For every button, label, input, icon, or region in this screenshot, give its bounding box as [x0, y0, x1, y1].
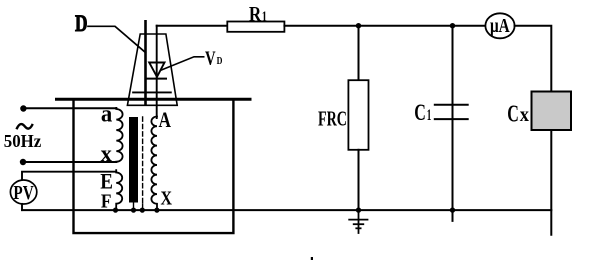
wire top to R1 [157, 25, 228, 27]
wire PV loop top [22, 172, 116, 181]
svg-text:FRC: FRC [318, 106, 347, 130]
resistor FRC [348, 80, 368, 150]
svg-text:1: 1 [262, 9, 267, 25]
svg-text:C: C [507, 102, 519, 128]
label a [101, 101, 112, 128]
wire PV bottom [21, 204, 23, 210]
voltmeter PV [10, 180, 36, 204]
wire R1 to uA [284, 25, 485, 27]
wire C1 vertical [452, 26, 454, 221]
source 50Hz node upper [20, 105, 26, 111]
svg-text:μA: μA [490, 15, 510, 37]
wire source upper [23, 107, 116, 109]
core bar [129, 117, 138, 203]
wire bottom [22, 209, 551, 211]
label X [161, 188, 173, 210]
node core terminal [131, 208, 136, 213]
label VD [205, 48, 222, 70]
node junction C1 top [450, 23, 455, 28]
label 50Hz [4, 131, 42, 151]
microammeter uA [485, 13, 514, 38]
label R1 [249, 2, 267, 26]
svg-text:V: V [205, 48, 216, 70]
label F [101, 190, 112, 212]
svg-text:D: D [217, 55, 223, 67]
core bottom stub [133, 203, 135, 211]
svg-text:PV: PV [13, 182, 34, 204]
label x [101, 141, 112, 167]
diode VD triangle [149, 63, 164, 77]
wire diode lead vertical [156, 26, 158, 118]
wire D pointer [88, 26, 146, 52]
label Cx [507, 102, 529, 128]
winding E-F [116, 170, 122, 210]
transformer box [74, 99, 234, 233]
label FRC [318, 106, 347, 130]
source node lower [20, 159, 26, 165]
wire Cx to bottom [550, 130, 552, 235]
svg-text:D: D [75, 11, 88, 36]
label VD pointer [162, 57, 204, 70]
core dashed line [142, 117, 144, 204]
node X terminal [154, 208, 159, 213]
capacitor Cx box [532, 92, 572, 131]
svg-text:C: C [414, 100, 426, 125]
svg-text:1: 1 [427, 107, 432, 124]
svg-text:F: F [101, 190, 112, 212]
wire FRC to bottom [358, 150, 360, 210]
bottom artifact mark [311, 257, 313, 260]
node ground junction [356, 207, 361, 212]
winding A-X [151, 117, 157, 211]
node C1 bottom junction [450, 207, 455, 212]
electrode D lead [144, 21, 147, 104]
node junction FRC top [356, 23, 361, 28]
svg-text:X: X [161, 188, 173, 210]
table plate line [57, 98, 251, 101]
node shield terminal [140, 208, 145, 213]
label E [100, 169, 113, 194]
bushing inner line [133, 91, 171, 93]
label C1 [414, 100, 431, 125]
svg-text:a: a [101, 101, 112, 128]
bushing trapezoid [127, 34, 177, 105]
svg-text:x: x [520, 102, 530, 126]
svg-text:R: R [249, 2, 262, 26]
wire uA to Cx corner [515, 26, 552, 92]
wire top to FRC [358, 26, 360, 80]
ground [349, 210, 367, 233]
winding a-x [116, 108, 122, 162]
node F terminal [113, 208, 118, 213]
diode VD cathode bar [148, 78, 167, 80]
svg-text:A: A [159, 108, 172, 132]
capacitor C1 plates [435, 104, 468, 106]
svg-text:50Hz: 50Hz [4, 131, 42, 151]
source tilde [17, 124, 32, 129]
svg-text:x: x [101, 141, 112, 167]
resistor R1 [227, 22, 284, 32]
wire source lower [23, 161, 116, 163]
label A [159, 108, 172, 132]
